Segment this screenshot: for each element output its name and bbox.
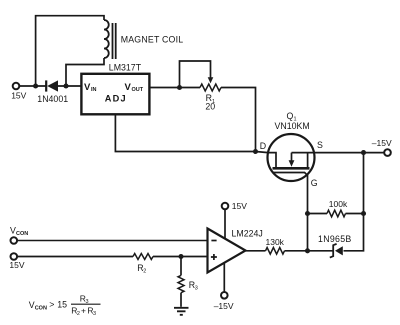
terminal op-amp -15V [221, 292, 228, 299]
svg-text:V: V [125, 82, 132, 93]
svg-text:1N965B: 1N965B [318, 234, 352, 244]
wire R2 to noninverting input [153, 256, 208, 258]
node gate-100k junction [305, 211, 310, 216]
wire source to -15V terminal [314, 152, 384, 154]
regulator U2 LM317T box [81, 74, 149, 115]
svg-text:15: 15 [57, 300, 67, 310]
op-amp plus symbol [211, 254, 217, 260]
wire potentiometer wiper loop [180, 61, 211, 88]
svg-text:ADJ: ADJ [105, 93, 127, 103]
svg-text:2: 2 [143, 268, 146, 274]
svg-text:2: 2 [77, 311, 80, 317]
wire zener row left [308, 250, 335, 252]
transistor gate plate [273, 173, 308, 176]
node drain junction [253, 149, 258, 154]
transistor internal drain leg [268, 153, 276, 167]
wire drain stub into transistor [256, 152, 269, 153]
wiper arrowhead [208, 77, 214, 83]
node diode anode junction [63, 83, 68, 88]
pin label VIN [84, 82, 97, 93]
wire top loop from cathode node to coil top [36, 16, 104, 86]
node rail-100k junction [361, 211, 366, 216]
wire coil bottom to anode node [66, 58, 104, 86]
svg-text:G: G [311, 178, 318, 188]
wire op-amp output to 130k [246, 250, 266, 252]
formula VCON > 15 R3/(R2+R3) [29, 294, 96, 318]
formula fraction bar [71, 303, 101, 305]
wire op-amp positive supply [224, 209, 226, 238]
resistor 130k [266, 248, 285, 255]
terminal VCON [11, 237, 18, 244]
wire op-amp negative supply [223, 263, 225, 292]
op-amp U1 LM224J triangle [208, 229, 246, 273]
wire right rail down [344, 153, 364, 251]
label VCON [10, 225, 28, 237]
svg-text:15V: 15V [11, 91, 26, 101]
wire R1 right to drain node [221, 88, 256, 152]
svg-text:130k: 130k [266, 237, 285, 247]
label R2 [137, 263, 146, 275]
label Q1 [287, 111, 297, 123]
node source junction [361, 150, 366, 155]
zener diode D2 triangle [335, 246, 343, 255]
wire ADJ pin down and right to drain node [115, 114, 255, 151]
svg-text:VN10KM: VN10KM [275, 121, 310, 131]
node R2-R3 junction [178, 254, 183, 259]
inductor core lines [113, 23, 116, 59]
terminal 15V input [13, 83, 20, 90]
svg-text:CON: CON [16, 231, 28, 237]
terminal -15V [384, 149, 391, 156]
svg-text:D: D [260, 141, 266, 151]
wire R3 top [180, 257, 182, 276]
svg-text:+: + [81, 305, 86, 315]
transistor Q1 VN10KM circle [268, 134, 315, 181]
svg-text:OUT: OUT [132, 87, 144, 93]
transistor channel bar [273, 167, 310, 170]
wire VOUT to R1 [149, 87, 200, 89]
diode D1 1N4001 triangle [47, 80, 58, 91]
node VOUT junction [177, 85, 182, 90]
wire 15V to R2 [17, 256, 133, 258]
svg-text:LM317T: LM317T [109, 62, 142, 72]
svg-text:LM224J: LM224J [232, 228, 263, 238]
terminal op-amp +15V [222, 203, 229, 210]
svg-text:MAGNET COIL: MAGNET COIL [121, 35, 184, 45]
svg-text:15V: 15V [9, 260, 24, 270]
resistor 100k [327, 210, 346, 217]
svg-text:V: V [84, 82, 91, 93]
wire diode segment [36, 85, 82, 87]
node cathode junction [33, 83, 38, 88]
svg-text:S: S [317, 140, 323, 150]
svg-text:IN: IN [91, 87, 97, 93]
op-amp minus symbol [211, 240, 216, 242]
resistor R2 [133, 254, 153, 260]
svg-text:–15V: –15V [372, 138, 392, 148]
svg-text:1N4001: 1N4001 [37, 94, 68, 104]
resistor R1 [200, 84, 221, 91]
terminal 15V lower [11, 253, 18, 260]
transistor internal arrow [291, 153, 293, 161]
transistor internal source leg [292, 153, 314, 167]
diode D1 1N4001 cathode bar [45, 80, 47, 91]
label R3 [189, 280, 198, 292]
pin label VOUT [125, 82, 144, 93]
wire R3 to ground [180, 293, 182, 307]
ground [174, 308, 189, 315]
svg-text:15V: 15V [232, 201, 247, 211]
svg-text:Q: Q [287, 111, 294, 121]
wire 100k row [308, 213, 364, 215]
svg-text:3: 3 [195, 286, 198, 292]
wire 130k to gate node [285, 250, 308, 252]
svg-text:3: 3 [93, 311, 96, 317]
label R1 [206, 93, 215, 105]
inductor MAGNET COIL [104, 20, 109, 58]
resistor R3 [178, 275, 184, 292]
svg-text:>: > [49, 300, 54, 310]
node gate-zener-output junction [305, 248, 310, 253]
svg-text:100k: 100k [329, 199, 348, 209]
wire VCON to inverting input [17, 240, 207, 242]
wire 15V terminal to diode cathode node [19, 85, 36, 87]
transistor arrowhead [289, 160, 295, 167]
wire gate rail down [307, 175, 309, 251]
zener diode D2 1N965B bar [330, 244, 337, 258]
svg-text:CON: CON [35, 305, 47, 311]
svg-text:–15V: –15V [214, 301, 234, 311]
svg-text:20: 20 [205, 102, 215, 112]
